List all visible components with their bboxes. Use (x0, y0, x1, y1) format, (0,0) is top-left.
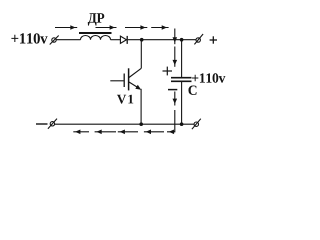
terminal input minus (48, 119, 57, 129)
node capacitor bottom junction (180, 122, 184, 126)
current arrow top 4 (151, 25, 168, 30)
transistor V1 (IGBT) (110, 68, 141, 90)
current arrow down into node (173, 29, 178, 45)
current arrow down to capacitor (173, 47, 178, 67)
capacitor C top lead (181, 40, 183, 77)
minus sign bottom left (36, 123, 48, 125)
current arrow top 3 (125, 25, 147, 30)
label +110v (output across C) (192, 73, 225, 82)
node capacitor top junction (180, 38, 184, 42)
terminal output minus (192, 119, 201, 130)
label V1 (117, 95, 133, 104)
current arrow bottom 2 (95, 130, 116, 135)
current arrow top 1 (55, 25, 77, 30)
label DR (88, 13, 105, 25)
terminal input plus (50, 36, 59, 45)
node collector junction (140, 38, 144, 42)
wire emitter (140, 89, 142, 124)
inductor DR (choke) (79, 33, 112, 40)
current arrow L-shaped return (167, 110, 175, 134)
label +110v (input) (11, 33, 47, 43)
current arrow top 2 (96, 25, 117, 30)
minus polarity of capacitor (168, 89, 177, 91)
label C (188, 86, 196, 95)
wire collector (140, 40, 142, 69)
wire diode to output terminal (128, 39, 196, 41)
bottom rail wire (55, 123, 194, 125)
capacitor C plates (171, 78, 192, 82)
plus sign top right (210, 36, 217, 43)
node emitter bottom junction (139, 122, 143, 126)
current arrow bottom 4 (144, 130, 164, 135)
current arrow bottom 3 (118, 130, 138, 135)
capacitor C bottom lead (181, 82, 183, 124)
current arrow bottom 1 (73, 130, 89, 135)
wire top-left (56, 39, 80, 41)
wire inductor to diode (111, 39, 121, 41)
diode VD (120, 36, 127, 44)
current arrow down below capacitor (173, 92, 178, 106)
plus polarity of capacitor (163, 67, 173, 76)
terminal output plus (194, 34, 203, 44)
